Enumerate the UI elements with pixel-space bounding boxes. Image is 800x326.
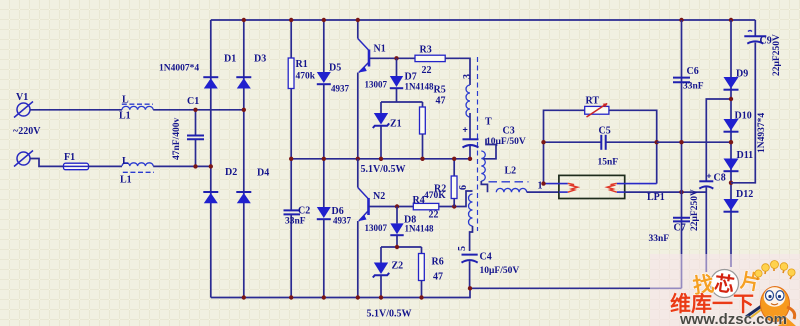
capacitor C7 bbox=[649, 218, 691, 244]
zener Z1 bbox=[373, 102, 402, 159]
svg-text:+: + bbox=[463, 125, 468, 135]
svg-text:1: 1 bbox=[538, 181, 543, 192]
starter loop top right bbox=[609, 110, 657, 183]
transformer T winding middle bbox=[481, 139, 496, 193]
junction C5 left bbox=[541, 140, 545, 144]
svg-text:Z1: Z1 bbox=[390, 119, 402, 130]
svg-text:5.1V/0.5W: 5.1V/0.5W bbox=[361, 164, 406, 175]
junction lamp return C7 bbox=[679, 190, 683, 194]
wire loop to charge pump bbox=[657, 141, 731, 143]
wire C6/C7 column bbox=[681, 20, 683, 288]
thermistor RT bbox=[585, 96, 609, 118]
svg-text:5.1V/0.5W: 5.1V/0.5W bbox=[367, 309, 412, 320]
resistor R5 bbox=[420, 85, 446, 159]
resistor R2 bbox=[424, 159, 457, 207]
terminal lower AC bbox=[14, 151, 33, 167]
svg-text:3: 3 bbox=[462, 74, 473, 79]
svg-text:47: 47 bbox=[436, 96, 446, 107]
capacitor C9 bbox=[744, 31, 782, 77]
diode D8 bbox=[390, 207, 434, 248]
transformer T winding top (pin3) bbox=[466, 85, 492, 139]
svg-text:R5: R5 bbox=[434, 85, 446, 96]
wire bottom rail bbox=[211, 288, 682, 297]
svg-text:6: 6 bbox=[458, 185, 469, 190]
svg-text:22μF250V: 22μF250V bbox=[690, 189, 700, 231]
junction C5 right bbox=[655, 140, 659, 144]
svg-text:1N4148: 1N4148 bbox=[405, 82, 434, 92]
resistor R3 bbox=[415, 45, 445, 77]
wire C9 column bbox=[754, 20, 756, 36]
diode D1 bbox=[203, 54, 236, 89]
wire bridge column 2 bbox=[243, 20, 245, 298]
junction C3 mid rail bbox=[468, 157, 472, 161]
svg-text:L1: L1 bbox=[119, 111, 131, 122]
diode D5 bbox=[317, 20, 350, 159]
svg-text:L2: L2 bbox=[505, 166, 517, 177]
resistor R1 bbox=[288, 20, 316, 159]
svg-text:www.dzsc.com: www.dzsc.com bbox=[679, 311, 787, 326]
svg-text:LP1: LP1 bbox=[647, 192, 665, 203]
svg-text:4937: 4937 bbox=[331, 84, 350, 94]
wire C8 column bbox=[706, 99, 731, 181]
diode D11 bbox=[724, 150, 754, 171]
svg-text:470k: 470k bbox=[296, 72, 316, 82]
junction lower AC at column1 bbox=[209, 164, 213, 168]
wire F1 to L1b bbox=[89, 165, 123, 167]
svg-text:22: 22 bbox=[422, 65, 432, 76]
transformer T core bbox=[477, 57, 479, 231]
starter loop left column bbox=[544, 110, 585, 183]
capacitor C3 bbox=[463, 125, 526, 159]
transistor N2 bbox=[358, 188, 388, 234]
wire L1 to C1 node bbox=[153, 109, 244, 111]
svg-text:D5: D5 bbox=[329, 63, 341, 74]
svg-text:47: 47 bbox=[433, 272, 443, 283]
junction dots top rail bbox=[242, 18, 734, 22]
wire lamp return to C8 column bbox=[625, 191, 707, 193]
svg-text:C2: C2 bbox=[298, 206, 310, 217]
diode D2 bbox=[203, 167, 237, 203]
wire top rail bbox=[211, 19, 756, 21]
svg-text:N1: N1 bbox=[374, 44, 386, 55]
svg-text:10μF/50V: 10μF/50V bbox=[480, 266, 520, 276]
wire R4 to R2/winding bbox=[439, 191, 473, 207]
svg-text:R6: R6 bbox=[432, 257, 444, 268]
junction N1 collector top rail bbox=[356, 18, 360, 22]
junction upper AC at column2 bbox=[242, 108, 246, 112]
svg-text:13007: 13007 bbox=[365, 223, 388, 233]
svg-text:22μF250V: 22μF250V bbox=[772, 34, 782, 76]
junction dots bottom rail bbox=[242, 295, 424, 299]
svg-text:R1: R1 bbox=[296, 59, 308, 70]
resistor R6 bbox=[419, 247, 444, 298]
junction D9/D10 bbox=[729, 97, 733, 101]
svg-text:RT: RT bbox=[586, 96, 600, 107]
svg-text:V1: V1 bbox=[16, 92, 28, 103]
wire L2 to lamp bbox=[527, 191, 559, 193]
wire R3 to winding pin3 bbox=[445, 58, 470, 85]
resistor R4 bbox=[413, 195, 439, 221]
svg-text:C9: C9 bbox=[760, 36, 772, 47]
wire N2 emitter to bottom rail bbox=[357, 221, 359, 298]
inductor L1 upper bbox=[119, 95, 153, 122]
capacitor C2 bbox=[284, 159, 311, 298]
svg-text:C6: C6 bbox=[687, 66, 699, 77]
svg-text:D9: D9 bbox=[736, 69, 748, 80]
svg-text:33nF: 33nF bbox=[683, 82, 704, 92]
wire mid rail (half-bridge midpoint) bbox=[291, 158, 470, 160]
wire N2 base line bbox=[369, 206, 414, 208]
svg-text:~220V: ~220V bbox=[13, 126, 41, 137]
svg-text:1N4007*4: 1N4007*4 bbox=[159, 64, 199, 74]
svg-text:C8: C8 bbox=[714, 173, 726, 184]
wire Z2/R6 top row bbox=[381, 246, 422, 248]
svg-text:D11: D11 bbox=[737, 150, 754, 161]
svg-text:T: T bbox=[485, 117, 492, 128]
wire from lower terminal to F1 bbox=[30, 159, 64, 167]
junction D8 row bbox=[395, 245, 399, 249]
svg-text:33nF: 33nF bbox=[285, 217, 306, 227]
svg-text:15nF: 15nF bbox=[598, 158, 619, 168]
wire from V1 to L1 bbox=[30, 109, 122, 111]
wire N1 base line bbox=[369, 57, 415, 59]
wire N2 collector to mid rail bbox=[357, 159, 359, 188]
svg-text:C1: C1 bbox=[187, 96, 199, 107]
svg-text:R4: R4 bbox=[413, 195, 425, 206]
capacitor C6 bbox=[673, 66, 704, 92]
svg-text:22: 22 bbox=[429, 210, 439, 221]
diode D4 bbox=[236, 168, 269, 204]
svg-text:D4: D4 bbox=[257, 168, 269, 179]
junction C4 bottom jog bbox=[468, 286, 472, 290]
junction C6 column at loop line bbox=[679, 140, 683, 144]
lamp LP1 bbox=[544, 175, 665, 202]
svg-text:N2: N2 bbox=[373, 191, 385, 202]
svg-text:C3: C3 bbox=[503, 126, 515, 137]
inductor L1 lower bbox=[120, 156, 154, 186]
diode D7 bbox=[390, 58, 434, 102]
svg-text:+: + bbox=[707, 171, 712, 181]
junction D10/D11 bbox=[729, 140, 733, 144]
svg-text:D1: D1 bbox=[224, 54, 236, 65]
wire N1 collector to top rail bbox=[357, 20, 359, 39]
capacitor C5 bbox=[544, 126, 657, 168]
junction R5 mid rail bbox=[420, 157, 424, 161]
junction mid rail D5/D6 bbox=[322, 157, 326, 161]
junction R2 bottom bbox=[452, 204, 456, 208]
svg-text:1N4937*4: 1N4937*4 bbox=[757, 113, 767, 153]
inductor L2 bbox=[489, 166, 529, 193]
svg-text:4937: 4937 bbox=[333, 216, 352, 226]
junction midpoint bbox=[356, 157, 360, 161]
svg-text:L: L bbox=[122, 95, 129, 106]
svg-text:F1: F1 bbox=[64, 152, 75, 163]
svg-text:D3: D3 bbox=[254, 54, 266, 65]
svg-text:D12: D12 bbox=[736, 189, 753, 200]
svg-text:47nF/400v: 47nF/400v bbox=[172, 118, 182, 160]
wire N1 emitter to mid rail bbox=[357, 73, 359, 159]
capacitor C1 bbox=[172, 96, 204, 166]
junction N2 base / D8 bbox=[395, 204, 399, 208]
capacitor C8 bbox=[690, 171, 726, 273]
capacitor C4 bbox=[462, 252, 520, 289]
terminal V1 bbox=[13, 92, 41, 137]
junction D11/D12 bbox=[729, 181, 733, 185]
svg-text:470K: 470K bbox=[424, 191, 446, 201]
fuse F1 bbox=[64, 152, 89, 170]
junction Z1 mid rail bbox=[379, 157, 383, 161]
junction N1 base / D7 bbox=[394, 56, 398, 60]
wire C9 to D11/D12 junction bbox=[731, 43, 755, 183]
wire diode column D9-D12 bbox=[730, 20, 732, 267]
svg-text:C4: C4 bbox=[480, 252, 492, 263]
wire L1b to bridge bbox=[153, 165, 211, 167]
wire bridge column 1 bbox=[210, 20, 212, 298]
junction R2 mid rail bbox=[452, 157, 456, 161]
svg-text:Z2: Z2 bbox=[392, 261, 404, 272]
svg-text:D2: D2 bbox=[225, 167, 237, 178]
svg-text:R3: R3 bbox=[420, 45, 432, 56]
svg-text:C7: C7 bbox=[674, 223, 686, 234]
diode D9 bbox=[724, 69, 749, 90]
junction C1 bottom bbox=[193, 164, 197, 168]
svg-text:1N4148: 1N4148 bbox=[405, 224, 434, 234]
zener Z2 bbox=[373, 247, 403, 298]
junction C1 top bbox=[193, 108, 197, 112]
watermark backdrop bbox=[650, 254, 800, 326]
diode D10 bbox=[724, 111, 752, 132]
svg-text:C5: C5 bbox=[599, 126, 611, 137]
transformer T winding bottom (pins 6-5) bbox=[457, 185, 473, 251]
junction lamp left pin bbox=[541, 181, 545, 185]
svg-text:L1: L1 bbox=[120, 175, 132, 186]
transistor N1 bbox=[358, 39, 388, 90]
watermark badge circle bbox=[711, 270, 739, 298]
junction mid rail left end bbox=[289, 157, 293, 161]
svg-text:D10: D10 bbox=[735, 111, 752, 122]
svg-text:33nF: 33nF bbox=[649, 234, 670, 244]
diode D3 bbox=[236, 54, 266, 89]
watermark mascot bbox=[746, 261, 796, 326]
svg-text:5: 5 bbox=[457, 246, 468, 251]
diode D6 bbox=[317, 159, 352, 298]
wire Z1/R5 top row bbox=[381, 101, 423, 103]
svg-text:10μF/50V: 10μF/50V bbox=[486, 137, 526, 147]
svg-text:13007: 13007 bbox=[365, 80, 388, 90]
svg-text:L: L bbox=[122, 156, 129, 167]
diode D12 bbox=[724, 189, 754, 212]
